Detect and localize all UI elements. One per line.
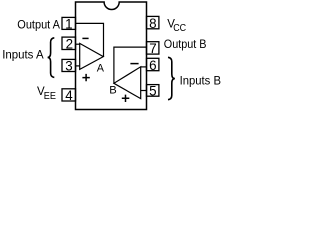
wire pin 5 to op-amp B non-inverting input (141, 90, 147, 92)
svg-text:EE: EE (44, 91, 56, 102)
wire pin 2 to op-amp A inverting input (76, 43, 80, 45)
svg-text:B: B (109, 84, 116, 96)
pin 1 box (62, 17, 76, 32)
op-amp B plus sign (122, 95, 130, 102)
svg-text:1: 1 (65, 17, 72, 32)
IC body U1 DIP-8 outline with pin-1 index notch (76, 2, 147, 110)
pin 3 box (62, 59, 76, 74)
op-amp A triangle (80, 43, 104, 69)
brace grouping Inputs B (pins 6,5) (168, 57, 175, 99)
svg-text:7: 7 (149, 41, 156, 56)
svg-text:2: 2 (66, 37, 73, 52)
op-amp A minus sign (82, 37, 88, 39)
wire pin 6 to op-amp B inverting input (141, 66, 147, 68)
wire pin 1 to op-amp A output (76, 23, 104, 56)
wire pin 7 to op-amp B output (114, 47, 147, 83)
op-amp B triangle (114, 67, 141, 99)
svg-text:6: 6 (149, 58, 156, 73)
pin 5 box (147, 83, 159, 98)
pin 6 box (147, 58, 159, 73)
pin 8 box (147, 16, 159, 31)
svg-text:CC: CC (173, 23, 186, 34)
svg-text:Inputs A: Inputs A (2, 50, 44, 62)
svg-text:4: 4 (65, 88, 73, 103)
svg-text:Output B: Output B (164, 39, 207, 51)
svg-text:Inputs B: Inputs B (180, 75, 222, 87)
pin 2 box (62, 37, 76, 52)
brace grouping Inputs A (pins 2,3) (48, 38, 55, 78)
svg-text:Output A: Output A (17, 20, 60, 32)
pin 4 box (62, 88, 76, 103)
svg-text:8: 8 (149, 16, 156, 31)
svg-text:A: A (97, 63, 105, 75)
pin 7 box (147, 41, 159, 56)
wire pin 3 to op-amp A non-inverting input (76, 65, 80, 67)
op-amp A plus sign (82, 74, 89, 81)
op-amp B minus sign (130, 63, 138, 65)
svg-text:5: 5 (149, 83, 156, 98)
svg-text:3: 3 (65, 59, 72, 74)
